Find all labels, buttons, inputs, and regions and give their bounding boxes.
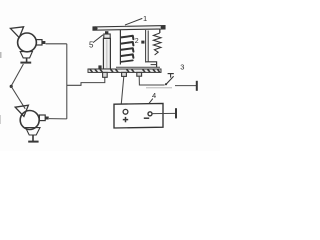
wire bus to relay terminal T1	[67, 77, 105, 85]
horn H1 foot	[26, 58, 28, 62]
junction A (dot)	[10, 85, 13, 88]
plus sign	[123, 119, 128, 121]
horn H2 (bottom-left) body	[20, 111, 39, 130]
armature plate	[145, 30, 147, 63]
label 5 leader	[93, 35, 103, 43]
spring hanger bracket	[159, 30, 161, 34]
base hatching	[90, 69, 160, 72]
contact nub	[141, 41, 144, 44]
horn H1 terminal	[36, 40, 42, 45]
wire vertical bus	[66, 44, 68, 119]
horn H1 bracket	[20, 52, 32, 58]
chassis bar (battery side)	[175, 108, 177, 118]
lower bracket	[146, 62, 157, 68]
wire horn H2 terminal to vertical bus	[49, 118, 67, 120]
switch 3 contact T	[168, 73, 174, 75]
horn H1 (top-left) body	[18, 33, 37, 52]
battery 4 case	[114, 103, 163, 128]
coil 2 windings	[121, 36, 133, 39]
capacitor 5 (cylinder) nub	[105, 31, 108, 34]
scan smudge left edge	[0, 52, 2, 58]
wire battery to chassis	[152, 112, 176, 114]
horn H1 funnel	[10, 27, 23, 38]
svg-text:5: 5	[89, 41, 94, 50]
svg-text:4: 4	[152, 91, 156, 100]
wire switch to chassis	[175, 85, 197, 87]
wire horn H1 terminal to vertical bus	[46, 43, 67, 45]
switch 3 blade	[166, 76, 174, 84]
relay terminal T1 (to horns)	[103, 72, 108, 77]
svg-text:3: 3	[180, 62, 184, 71]
wire relay T3 to switch 3	[139, 76, 164, 85]
relay terminal T3 (to switch)	[137, 72, 142, 76]
wire junction A to horn H2	[11, 86, 25, 108]
label 4 leader	[149, 99, 153, 104]
spring (zigzag)	[153, 33, 161, 55]
capacitor 5 cylinder body	[103, 38, 110, 69]
wire relay T2 to battery	[121, 76, 124, 103]
wire horn H1 to junction A	[11, 64, 23, 86]
horn H2 funnel	[15, 105, 28, 116]
relay top bar (1)	[93, 26, 165, 31]
horn H2 foot	[32, 135, 34, 141]
minus sign	[144, 117, 149, 119]
coil 2 left wire	[119, 30, 121, 65]
switch 3 pivot	[165, 83, 167, 85]
small block above base left	[98, 65, 101, 69]
label 1 leader	[125, 18, 142, 25]
horn H2 bracket	[26, 128, 40, 135]
relay base bar	[88, 69, 161, 72]
relay terminal T2 (to battery)	[122, 72, 127, 76]
chassis bar (switch side)	[196, 81, 198, 91]
rail above base	[116, 66, 160, 68]
svg-text:2: 2	[135, 38, 139, 45]
horn H2 terminal	[39, 115, 45, 121]
faint scan line	[146, 87, 172, 89]
capacitor 5 cylinder cap	[104, 34, 110, 38]
battery terminal +	[123, 109, 128, 114]
battery terminal -	[148, 112, 152, 116]
svg-text:1: 1	[143, 14, 147, 23]
